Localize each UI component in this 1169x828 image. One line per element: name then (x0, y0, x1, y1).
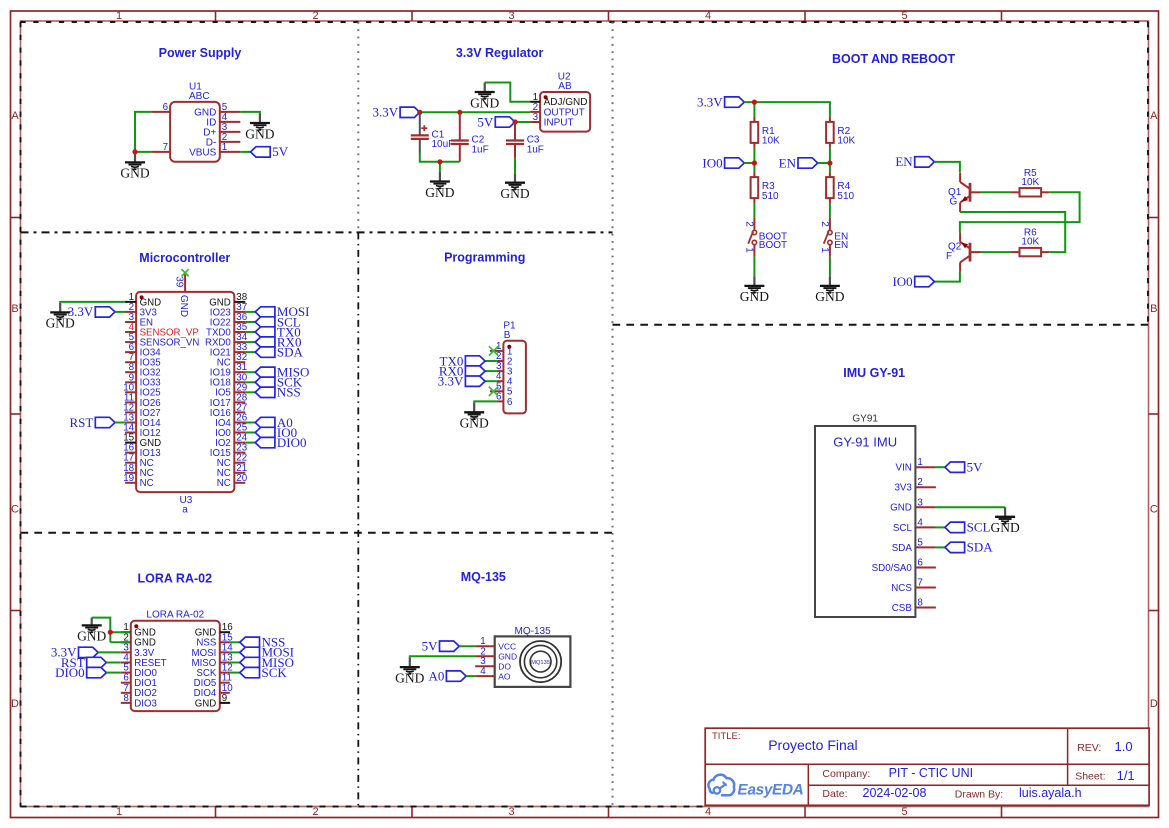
LORA pin 3 3.3V (121, 642, 155, 658)
svg-text:10K: 10K (762, 136, 780, 147)
MQ-135 pin 3 DO (475, 656, 511, 671)
svg-text:VBUS: VBUS (189, 147, 217, 158)
GY91 pin 8 CSB (892, 598, 936, 614)
junction (108, 630, 113, 635)
net flag RST (69, 415, 115, 430)
gas sensor MQ-135 (495, 626, 571, 687)
LORA pin 6 DIO1 (121, 673, 157, 689)
P1 pin 1 (490, 341, 513, 357)
svg-text:510: 510 (762, 191, 779, 202)
P1 pin 6 (496, 391, 513, 407)
svg-text:DO: DO (498, 662, 511, 672)
EasyEDA logo (708, 775, 805, 799)
svg-text:GND: GND (425, 185, 454, 200)
wire (829, 257, 831, 277)
svg-text:B: B (504, 330, 511, 341)
svg-text:1: 1 (116, 806, 122, 818)
wire (106, 672, 120, 674)
svg-text:GND: GND (470, 95, 499, 110)
U3 pin 27 IO16 (210, 402, 247, 418)
no-connect cross P1 pin 5 (489, 387, 498, 396)
MQ-135 pin 2 GND (475, 646, 517, 661)
wire (230, 651, 240, 653)
svg-text:VCC: VCC (498, 642, 516, 652)
resistor R4 (826, 172, 854, 203)
svg-text:Date:: Date: (822, 788, 847, 800)
ground (740, 276, 769, 304)
GY91 pin 1 VIN (896, 457, 936, 473)
svg-text:20: 20 (236, 473, 247, 484)
net flag 3.3V (438, 374, 485, 389)
U3 pin 17 NC (123, 453, 153, 469)
svg-text:5V: 5V (967, 460, 984, 475)
svg-text:DIO0: DIO0 (55, 665, 85, 680)
svg-text:GY91: GY91 (852, 413, 878, 424)
svg-text:2: 2 (312, 806, 318, 818)
svg-text:DIO0: DIO0 (277, 435, 307, 450)
U3 pin 1 GND (125, 292, 161, 308)
ground (500, 173, 529, 201)
U3 pin 9 IO33 (125, 372, 161, 388)
svg-text:B: B (11, 303, 18, 315)
net flag A0 (255, 415, 293, 430)
capacitor C3 (506, 122, 544, 158)
svg-text:TITLE:: TITLE: (712, 731, 741, 742)
svg-text:3.3V: 3.3V (438, 374, 464, 389)
wire (485, 360, 497, 362)
U3 pin 16 IO13 (123, 443, 160, 459)
svg-text:Programming: Programming (444, 251, 525, 265)
U1 pin 1 VBUS (189, 142, 240, 158)
net flag 5V (945, 460, 983, 475)
wire (753, 203, 755, 217)
wire (245, 391, 255, 393)
net flag 3.3V (697, 94, 744, 109)
ground (470, 83, 499, 111)
net flag NSS (240, 635, 286, 650)
U3 pin 20 NC (217, 473, 248, 489)
svg-text:D: D (1150, 698, 1158, 710)
wire (485, 83, 530, 102)
svg-text:DIO3: DIO3 (134, 698, 157, 709)
wire (753, 257, 755, 277)
junction (512, 119, 517, 124)
wire (245, 442, 255, 444)
svg-text:3: 3 (917, 497, 923, 508)
junction (132, 149, 137, 154)
wire (230, 641, 240, 643)
svg-text:Proyecto Final: Proyecto Final (768, 737, 857, 753)
svg-text:9: 9 (222, 693, 227, 704)
svg-text:Power Supply: Power Supply (159, 46, 242, 60)
svg-text:a: a (182, 505, 188, 516)
U3 pin 35 TXD0 (206, 322, 248, 338)
svg-text:1uF: 1uF (472, 144, 489, 155)
U3 pin 34 RXD0 (205, 332, 248, 348)
svg-text:A0: A0 (429, 668, 445, 683)
svg-text:5: 5 (901, 10, 907, 22)
svg-text:NCS: NCS (891, 583, 912, 594)
svg-text:Microcontroller: Microcontroller (139, 251, 230, 265)
ground (245, 114, 274, 142)
wire (829, 203, 831, 217)
switch SW1 BOOT (744, 217, 788, 256)
svg-text:NC: NC (140, 478, 154, 489)
svg-text:BOOT: BOOT (759, 240, 787, 251)
net flag SCL (945, 520, 991, 535)
svg-text:RST: RST (69, 415, 93, 430)
svg-text:C: C (11, 504, 19, 516)
wire (960, 212, 1065, 252)
svg-text:CSB: CSB (892, 603, 913, 614)
wire (115, 311, 125, 313)
section border dashed right edge of boot section (1147, 22, 1149, 325)
GY91 pin 3 GND (890, 497, 936, 513)
LORA pin 5 DIO0 (121, 663, 158, 679)
svg-text:1: 1 (819, 247, 830, 253)
svg-text:1.0: 1.0 (1115, 739, 1133, 754)
net flag NSS (255, 385, 301, 400)
U3 pin 10 IO25 (123, 382, 160, 398)
wire (240, 112, 260, 114)
U3 pin 39 GND top (174, 269, 189, 317)
wire (92, 618, 111, 643)
resistor R3 (751, 172, 779, 203)
U2 pin 2 OUTPUT (530, 102, 585, 118)
microcontroller U3 (136, 292, 234, 516)
U3 pin 7 IO35 (125, 352, 161, 368)
wire (60, 302, 125, 303)
svg-text:REV:: REV: (1077, 742, 1101, 754)
svg-text:3: 3 (508, 806, 514, 818)
junction (752, 100, 757, 105)
section divider vertical dotted between power supply and regulator (357, 22, 359, 232)
U3 pin 28 IO17 (210, 392, 248, 408)
svg-text:2: 2 (312, 10, 318, 22)
svg-text:AB: AB (558, 81, 572, 92)
wire (439, 162, 441, 172)
MQ-135 pin 1 VCC (475, 636, 516, 651)
svg-text:5V: 5V (477, 114, 494, 129)
U3 pin 23 IO15 (210, 443, 248, 459)
GY91 pin 5 SDA (892, 537, 936, 553)
ground (815, 276, 844, 304)
net flag RST (61, 655, 107, 670)
svg-text:SCK: SCK (262, 665, 288, 680)
wire (485, 370, 497, 372)
U3 pin 25 IO0 (215, 423, 248, 439)
svg-text:IO0: IO0 (892, 274, 912, 289)
ground (425, 172, 454, 200)
wire (245, 422, 255, 424)
U3 pin 6 IO34 (125, 342, 161, 358)
svg-text:2: 2 (819, 221, 830, 227)
svg-text:GND: GND (395, 670, 424, 685)
svg-text:GND: GND (178, 295, 189, 317)
wire (936, 506, 1005, 508)
svg-text:7: 7 (163, 142, 168, 153)
svg-text:MQ-135: MQ-135 (461, 570, 506, 584)
wire (245, 321, 255, 323)
wire (420, 153, 460, 162)
wire (98, 651, 121, 653)
net flag 5V (422, 639, 460, 654)
svg-text:3.3V: 3.3V (372, 105, 398, 120)
P1 pin 5 (490, 381, 513, 397)
header P1 (503, 320, 526, 413)
svg-text:4: 4 (705, 10, 711, 22)
MQ-135 pin 4 AO (475, 666, 511, 681)
LORA pin 4 RESET (121, 653, 167, 669)
net flag MOSI (240, 645, 294, 660)
svg-text:5V: 5V (422, 639, 439, 654)
LORA pin 11 DIO5 (194, 673, 232, 689)
wire (420, 111, 530, 113)
net flag SDA (945, 540, 993, 555)
U3 pin 3 EN (125, 312, 153, 328)
U1 pin 6 (151, 102, 170, 113)
svg-text:IMU GY-91: IMU GY-91 (843, 366, 905, 380)
svg-text:NSS: NSS (277, 385, 301, 400)
wire (135, 151, 151, 153)
wire (106, 662, 120, 664)
net flag SCK (240, 665, 288, 680)
U3 pin 37 IO23 (210, 302, 247, 318)
U3 pin 21 NC (217, 463, 247, 479)
U3 pin 29 IO5 (215, 382, 247, 398)
net flag MOSI (255, 304, 309, 319)
svg-text:2: 2 (917, 477, 922, 488)
net flag TX0 (255, 324, 301, 339)
wire (744, 102, 830, 117)
svg-text:GND: GND (245, 126, 274, 141)
ground (120, 153, 149, 181)
svg-text:F: F (946, 251, 952, 262)
svg-text:SDA: SDA (892, 543, 913, 554)
U1 pin 3 D+ (203, 122, 240, 138)
regulator U2 (540, 71, 590, 131)
LORA pin 10 DIO4 (194, 683, 234, 699)
U3 pin 32 NC (217, 352, 247, 368)
svg-text:1: 1 (116, 10, 122, 22)
resistor R1 (751, 117, 780, 148)
net flag 5V (477, 114, 515, 129)
svg-text:NC: NC (217, 478, 231, 489)
wire (485, 380, 497, 382)
junction (417, 110, 422, 115)
junction (457, 110, 462, 115)
net flag EN (895, 154, 934, 169)
ground (46, 303, 75, 331)
U3 pin 8 IO32 (125, 362, 161, 378)
wire (474, 401, 497, 402)
ground (77, 618, 106, 644)
U1 pin 2 D- (206, 132, 241, 148)
svg-text:1uF: 1uF (527, 144, 544, 155)
svg-text:6: 6 (917, 558, 923, 569)
wire (515, 121, 530, 123)
LORA pin 8 DIO3 (121, 693, 157, 709)
U3 pin 13 IO14 (123, 413, 161, 429)
U3 pin 19 NC (123, 473, 153, 489)
junction (827, 160, 832, 165)
U3 pin 18 NC (123, 463, 153, 479)
net flag 3.3V (68, 304, 115, 319)
U3 pin 26 IO4 (215, 413, 248, 429)
net flag DIO0 (255, 435, 306, 450)
svg-text:IO0: IO0 (702, 155, 722, 170)
svg-text:GND: GND (890, 503, 912, 514)
U3 pin 30 IO18 (210, 372, 248, 388)
wire (110, 631, 130, 633)
LORA pin 2 GND (121, 632, 156, 648)
net flag MISO (240, 655, 294, 670)
GY91 pin 7 NCS (891, 578, 936, 594)
wire (245, 432, 255, 434)
P1 pin 2 (496, 351, 513, 367)
svg-text:Drawn By:: Drawn By: (955, 789, 1003, 801)
svg-text:GND: GND (815, 289, 844, 304)
LORA pin 13 MISO (192, 653, 234, 669)
svg-text:AO: AO (498, 672, 511, 682)
svg-text:SCL: SCL (893, 523, 913, 534)
svg-text:MQ-135: MQ-135 (515, 626, 552, 637)
svg-text:8: 8 (917, 598, 923, 609)
wire (245, 351, 255, 353)
net flag 3.3V (51, 645, 98, 660)
title block outline (705, 728, 1149, 805)
svg-text:10K: 10K (837, 136, 855, 147)
svg-text:19: 19 (123, 473, 134, 484)
wire (110, 641, 130, 643)
svg-text:10K: 10K (1021, 177, 1039, 188)
wire (981, 191, 1011, 193)
wire (936, 466, 945, 468)
U3 pin 14 IO12 (123, 423, 160, 439)
svg-text:1: 1 (222, 142, 227, 153)
U3 pin 11 IO26 (124, 392, 161, 408)
svg-text:1/1: 1/1 (1117, 768, 1135, 783)
transistor Q1 (948, 173, 981, 212)
svg-text:3.3V Regulator: 3.3V Regulator (456, 46, 544, 60)
usb connector U1 (170, 82, 220, 162)
wire (981, 251, 1011, 253)
svg-text:GND: GND (990, 520, 1019, 535)
svg-text:3: 3 (508, 10, 514, 22)
net flag IO0 (892, 274, 934, 289)
net flag RX0 (439, 363, 485, 378)
net flag 3.3V (372, 105, 419, 120)
svg-text:C: C (1150, 504, 1158, 516)
svg-text:2024-02-08: 2024-02-08 (863, 786, 927, 800)
GY91 pin 2 3V3 (894, 477, 935, 493)
svg-text:SDA: SDA (967, 540, 994, 555)
svg-text:6: 6 (163, 102, 169, 113)
svg-text:INPUT: INPUT (544, 117, 574, 128)
resistor R2 (826, 117, 855, 148)
capacitor C1 (411, 112, 454, 152)
U3 pin 36 IO22 (210, 312, 248, 328)
U3 pin 4 SENSOR_VP (125, 322, 199, 338)
svg-text:2: 2 (744, 221, 755, 227)
svg-text:GND: GND (120, 166, 149, 181)
wire (744, 162, 754, 164)
LORA pin 12 SCK (196, 663, 232, 679)
wire (410, 656, 475, 657)
wire (230, 672, 240, 674)
section border dashed rectangle top edge (21, 21, 1149, 23)
ground (460, 403, 489, 431)
GY91 pin 6 SD0/SA0 (872, 558, 936, 574)
section divider vertical dotted between middle column and right column (612, 22, 614, 807)
svg-text:5: 5 (917, 537, 923, 548)
wire (936, 526, 945, 528)
svg-text:7: 7 (917, 578, 922, 589)
wire (818, 162, 830, 164)
section border dashed rectangle left edge (20, 22, 22, 807)
section divider horizontal below boot and reboot (613, 324, 1149, 326)
svg-text:5: 5 (901, 806, 907, 818)
wire (459, 645, 475, 647)
svg-text:1: 1 (744, 247, 755, 253)
lora module U4 (131, 610, 220, 712)
wire (245, 311, 255, 313)
svg-text:GND: GND (498, 652, 517, 662)
GY91 pin 4 SCL (893, 517, 936, 533)
svg-text:GND: GND (460, 416, 489, 431)
wire (466, 675, 475, 677)
net flag SCL (255, 314, 301, 329)
U1 pin 7 (151, 142, 170, 153)
svg-text:4: 4 (480, 666, 486, 677)
svg-text:GND: GND (195, 698, 217, 709)
svg-text:510: 510 (837, 191, 854, 202)
svg-text:1: 1 (917, 457, 922, 468)
net flag DIO0 (55, 665, 106, 680)
LORA pin 16 GND (195, 622, 233, 638)
svg-text:EN: EN (834, 240, 848, 251)
LORA pin 15 NSS (196, 632, 233, 648)
U3 pin 31 IO19 (210, 362, 247, 378)
net flag EN (779, 155, 818, 170)
section divider horizontal between power supply and microcontroller (21, 231, 613, 233)
LORA pin 1 GND (121, 622, 156, 638)
svg-text:SDA: SDA (277, 344, 304, 359)
wire (514, 158, 516, 173)
LORA pin 9 GND (195, 693, 230, 709)
P1 pin 3 (496, 361, 513, 377)
svg-text:Company:: Company: (822, 768, 870, 780)
net flag A0 (429, 668, 467, 683)
svg-text:GY-91 IMU: GY-91 IMU (833, 434, 897, 449)
svg-text:8: 8 (123, 693, 129, 704)
svg-text:B: B (1150, 303, 1157, 315)
svg-text:A: A (11, 110, 19, 122)
LORA pin 7 DIO2 (121, 683, 157, 699)
wire (245, 341, 255, 343)
net flag SCK (255, 375, 303, 390)
svg-text:BOOT AND REBOOT: BOOT AND REBOOT (832, 52, 956, 66)
U3 pin 15 GND (123, 433, 161, 449)
U1 pin 4 ID (206, 112, 240, 128)
svg-text:3: 3 (533, 112, 539, 123)
section divider horizontal between microcontroller and lora (21, 532, 618, 534)
wire (245, 381, 255, 383)
section divider vertical dash-dot between programming column and left column (357, 232, 359, 806)
svg-text:SD0/SA0: SD0/SA0 (872, 563, 913, 574)
wire (753, 102, 755, 117)
svg-text:A: A (1150, 110, 1158, 122)
